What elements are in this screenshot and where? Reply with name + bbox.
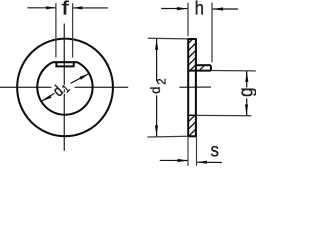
s arrow right	[197, 161, 207, 164]
bent tab top edge	[196, 64, 211, 66]
bent tab end edge	[210, 65, 212, 70]
d1 arrow lower	[42, 95, 52, 101]
section bar top edge	[187, 38, 197, 40]
chord line across top notch	[53, 61, 77, 63]
label d1 (rotated)	[50, 78, 73, 101]
section bar bottom edge	[187, 135, 197, 137]
d2 arrow down	[155, 125, 158, 136]
section view horizontal centerline	[179, 86, 211, 88]
svg-text:2: 2	[157, 78, 169, 84]
s extension line right	[196, 136, 198, 166]
d2 extension line bottom	[147, 135, 188, 138]
hatching lower material	[188, 115, 195, 122]
d1 arrow upper	[79, 73, 89, 79]
h arrow right	[213, 7, 224, 10]
bore bottom line in section	[188, 114, 196, 116]
f dimension line right	[73, 7, 108, 9]
svg-text:h: h	[195, 0, 204, 19]
section bar left edge	[187, 39, 189, 136]
label g (rotated 90 ccw)	[234, 87, 257, 96]
g dimension line upper segment	[246, 71, 248, 88]
section bar right edge	[195, 39, 197, 136]
svg-text:g: g	[234, 87, 256, 96]
f extension line left	[55, 3, 57, 57]
s dimension line right	[197, 161, 222, 163]
front view horizontal centerline	[0, 86, 52, 88]
d2 extension line top	[148, 37, 189, 40]
d2 dimension line lower segment	[156, 95, 158, 136]
h dimension line right	[213, 8, 238, 10]
svg-text:f: f	[62, 0, 70, 19]
s extension line left	[187, 136, 189, 166]
h arrow left	[177, 7, 188, 10]
s arrow left	[178, 159, 188, 162]
g extension line top (from tab corner)	[211, 70, 256, 72]
f arrow right	[73, 6, 83, 9]
hatching in tab	[199, 65, 204, 70]
svg-text:d: d	[147, 87, 163, 94]
d2 dimension line upper segment	[156, 39, 158, 82]
g dimension line lower segment	[246, 98, 248, 115]
front view vertical centerline	[63, 24, 65, 151]
f extension line right	[72, 3, 74, 57]
label d2 (rotated 90 ccw)	[147, 78, 168, 93]
f arrow left	[46, 6, 56, 9]
h dimension line left	[161, 8, 187, 10]
bent tab bottom edge	[188, 70, 211, 72]
outer circle (washer OD d2)	[17, 39, 113, 137]
hatching at bend	[190, 65, 195, 70]
hatching upper material	[188, 39, 193, 44]
g arrow up	[245, 71, 248, 82]
d2 arrow up	[155, 39, 158, 50]
h extension line right	[211, 3, 213, 63]
tab (nose) end-face rectangle	[56, 62, 73, 66]
g arrow down	[245, 105, 248, 116]
d1 dimension line lower segment	[42, 93, 55, 101]
svg-text:s: s	[211, 139, 219, 161]
d1 dimension line upper segment	[71, 73, 90, 83]
h extension line left	[187, 3, 189, 36]
s dimension line left	[160, 159, 188, 161]
g extension line bottom	[196, 114, 252, 116]
inner circle (bore d1) with gap at top notch	[37, 62, 92, 115]
f dimension line left	[27, 7, 55, 9]
